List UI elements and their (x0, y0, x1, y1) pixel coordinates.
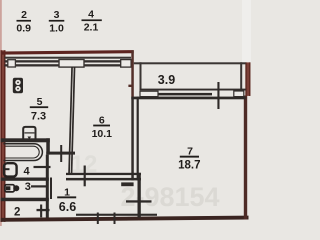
wall outer step (right of top-left section), also divider 6/7 left line (131, 50, 134, 97)
entrance inner line (76, 214, 157, 216)
duct stub in corridor corner (121, 182, 133, 186)
window jamb box right (121, 60, 131, 68)
corridor top wall double line (66, 173, 141, 175)
window glazing bar (room 7 window) (158, 93, 212, 96)
svg-text:10.1: 10.1 (92, 128, 113, 140)
kitchen door tick (60, 145, 62, 162)
svg-text:0.9: 0.9 (16, 23, 31, 35)
window band top-left: glazing line 2 (5, 64, 132, 66)
bath/wc divider wall (1, 178, 49, 181)
scan left pink edge (0, 0, 2, 226)
kitchen bottom right segment (46, 152, 75, 155)
toilet (5, 185, 14, 192)
label 4/2.1 (82, 9, 102, 34)
svg-text:3: 3 (25, 181, 31, 193)
svg-text:3: 3 (54, 9, 60, 21)
bathtub (4, 144, 43, 161)
room label 5/7.3 (30, 96, 48, 123)
svg-text:1.0: 1.0 (49, 23, 64, 35)
svg-text:2: 2 (21, 9, 27, 21)
room2 door tick (37, 209, 50, 211)
svg-text:18.7: 18.7 (178, 160, 200, 172)
wall bottom outer (1, 216, 249, 222)
wall jog bath right top (46, 138, 50, 154)
svg-text:5: 5 (37, 96, 43, 108)
background paper (0, 0, 251, 226)
window end box left (140, 91, 158, 96)
svg-text:6.6: 6.6 (59, 200, 76, 214)
window band top-left: upper line (5, 57, 132, 59)
label 3/1.0 (49, 9, 65, 35)
room label 7/18.7 (178, 146, 200, 172)
window sill box middle (59, 60, 84, 68)
window end box right (234, 91, 244, 97)
balcony right inner line (240, 62, 242, 96)
wc/room2 divider wall (1, 198, 49, 202)
entrance tick 2 (114, 213, 116, 225)
svg-text:2: 2 (14, 207, 20, 219)
svg-text:2-98154: 2-98154 (120, 182, 219, 212)
window band top-left: glazing line 1 (5, 60, 132, 62)
wall top outer (red) (1, 50, 134, 55)
svg-text:7.3: 7.3 (31, 111, 46, 123)
room 6 door tick (84, 166, 86, 187)
svg-text:3.9: 3.9 (158, 73, 175, 87)
divider 5/6 double line (68, 67, 73, 174)
balcony parapet line (140, 89, 246, 91)
room 7 top wall (131, 97, 245, 100)
window tick (217, 82, 219, 109)
washbasin (4, 163, 17, 176)
wall left outer (red) (1, 50, 6, 222)
kitchen sink (23, 127, 35, 140)
label 2/0.9 (16, 9, 31, 35)
window jamb box left (8, 60, 16, 67)
corridor right wall (room 7 lower left wall) (138, 173, 141, 218)
svg-text:4: 4 (88, 9, 94, 21)
svg-text:2.1: 2.1 (84, 22, 99, 34)
vent second line right of WC (50, 178, 52, 200)
balcony top line (134, 62, 246, 64)
bath door tick (34, 166, 51, 168)
room label 6/10.1 (92, 115, 113, 140)
small rooms right wall (46, 155, 49, 218)
svg-text:4: 4 (24, 165, 31, 177)
wall right outer (red) (244, 96, 247, 220)
entrance tick 1 (97, 213, 99, 225)
balcony left line (140, 62, 142, 89)
wc door tick (31, 185, 47, 187)
kitchen bottom wall (bath top wall) (1, 138, 50, 142)
divider 6/7 right line (137, 97, 139, 181)
room 7 door tick (126, 200, 152, 202)
stove (13, 78, 23, 93)
room label 1/6.6 (57, 186, 76, 214)
